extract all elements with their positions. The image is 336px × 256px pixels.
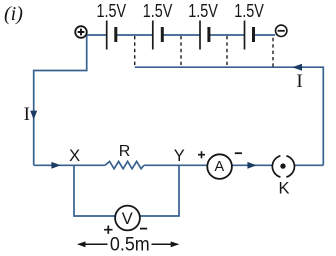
svg-text:A: A [214, 159, 224, 175]
svg-text:1.5V: 1.5V [143, 1, 173, 21]
svg-text:1.5V: 1.5V [188, 1, 218, 21]
svg-text:V: V [122, 210, 133, 228]
svg-text:I: I [296, 71, 302, 92]
svg-text:0.5m: 0.5m [110, 234, 150, 255]
svg-text:X: X [69, 147, 80, 165]
svg-text:1.5V: 1.5V [97, 1, 127, 21]
svg-text:1.5V: 1.5V [234, 1, 264, 21]
svg-text:Y: Y [174, 147, 185, 165]
svg-text:(i): (i) [4, 3, 23, 25]
svg-text:K: K [278, 179, 289, 197]
svg-text:R: R [119, 143, 131, 160]
svg-text:I: I [24, 104, 30, 125]
